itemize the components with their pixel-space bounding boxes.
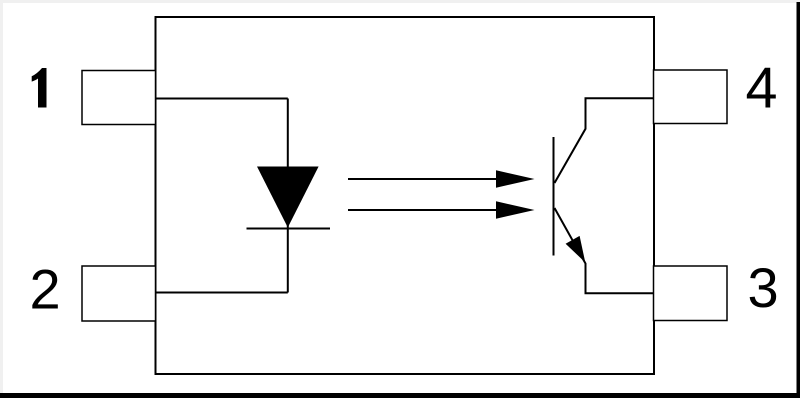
svg-text:2: 2 <box>30 258 61 321</box>
svg-text:3: 3 <box>748 256 779 319</box>
svg-text:4: 4 <box>746 57 778 121</box>
